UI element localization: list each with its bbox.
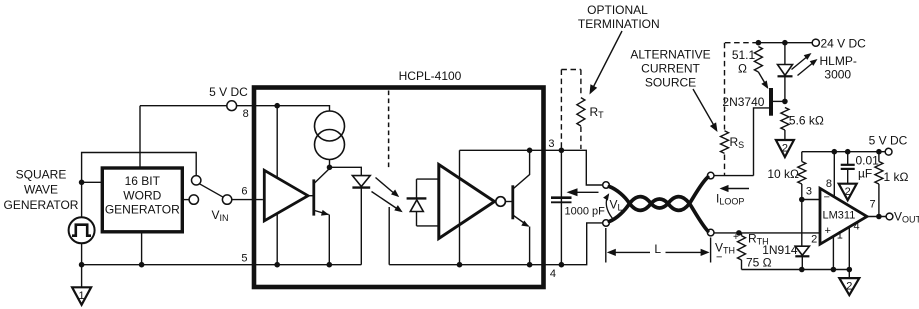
svg-text:8: 8	[243, 108, 249, 120]
svg-text:µF: µF	[858, 167, 872, 181]
svg-text:24 V DC: 24 V DC	[821, 37, 867, 51]
svg-text:SQUARE: SQUARE	[16, 168, 67, 182]
svg-text:1000 pF: 1000 pF	[565, 206, 606, 218]
svg-text:51.1: 51.1	[732, 48, 756, 62]
svg-text:3000: 3000	[824, 68, 851, 82]
svg-text:3: 3	[806, 186, 812, 198]
svg-text:2: 2	[845, 186, 851, 198]
svg-text:2: 2	[811, 234, 817, 246]
svg-text:1: 1	[79, 290, 85, 302]
svg-text:+: +	[733, 232, 739, 243]
svg-text:L: L	[654, 242, 661, 256]
svg-text:0.01: 0.01	[856, 154, 880, 168]
svg-text:2: 2	[846, 281, 852, 293]
svg-text:Ω: Ω	[738, 62, 747, 76]
svg-text:8: 8	[826, 178, 832, 190]
svg-text:TERMINATION: TERMINATION	[578, 17, 660, 31]
svg-text:LM311: LM311	[823, 210, 856, 222]
svg-text:16 BIT: 16 BIT	[125, 174, 161, 188]
svg-text:WAVE: WAVE	[24, 183, 58, 197]
svg-text:1: 1	[837, 230, 843, 242]
svg-text:1N914: 1N914	[762, 243, 798, 257]
svg-text:HLMP-: HLMP-	[820, 54, 857, 68]
svg-text:4: 4	[854, 221, 860, 233]
svg-text:75 Ω: 75 Ω	[746, 256, 772, 270]
svg-text:5.6 kΩ: 5.6 kΩ	[789, 114, 824, 128]
svg-text:ALTERNATIVE: ALTERNATIVE	[630, 48, 710, 62]
svg-text:6: 6	[241, 186, 247, 198]
svg-text:WORD: WORD	[123, 189, 161, 203]
svg-text:5: 5	[241, 253, 247, 265]
svg-text:HCPL-4100: HCPL-4100	[399, 69, 462, 83]
svg-text:+: +	[825, 225, 831, 237]
svg-text:1 kΩ: 1 kΩ	[884, 170, 909, 184]
svg-text:3: 3	[548, 138, 554, 150]
svg-text:2N3740: 2N3740	[722, 95, 764, 109]
svg-text:CURRENT: CURRENT	[641, 62, 700, 76]
svg-text:5 V DC: 5 V DC	[209, 85, 248, 99]
svg-text:GENERATOR: GENERATOR	[105, 203, 180, 217]
svg-text:7: 7	[870, 199, 876, 211]
svg-text:−: −	[824, 192, 830, 204]
svg-text:2: 2	[782, 143, 788, 155]
svg-text:GENERATOR: GENERATOR	[4, 198, 79, 212]
svg-text:10 kΩ: 10 kΩ	[767, 167, 799, 181]
svg-text:5 V DC: 5 V DC	[869, 134, 908, 148]
svg-text:OPTIONAL: OPTIONAL	[587, 3, 648, 17]
svg-text:4: 4	[550, 268, 556, 280]
svg-text:SOURCE: SOURCE	[645, 76, 696, 90]
